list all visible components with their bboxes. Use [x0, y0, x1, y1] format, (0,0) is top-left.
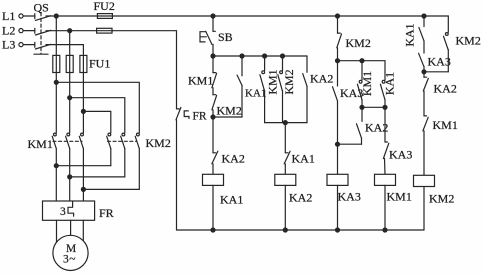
svg-text:KA1: KA1: [403, 23, 417, 46]
KM1 linkage dashes: [53, 140, 82, 142]
terminal L2: [19, 29, 23, 33]
contact KM1 (NO aux in KA3 branch): [357, 61, 362, 108]
label KA2 (NO to node B): [365, 121, 388, 135]
svg-text:KA2: KA2: [289, 191, 312, 205]
wire FR to motor 2: [70, 220, 72, 235]
svg-text:KA1: KA1: [382, 72, 396, 95]
svg-text:KM1: KM1: [360, 71, 374, 96]
junction phase1 tap: [54, 80, 58, 84]
contact KA1 (NO, bypass): [237, 56, 242, 117]
wire coil KA2 to bottom rail: [284, 185, 286, 230]
overload contact FR (NC) on left rail: [176, 107, 189, 119]
junction motor V: [68, 175, 72, 179]
svg-text:FU2: FU2: [94, 0, 115, 13]
wire L2 net to control left rail: [112, 31, 176, 109]
contact KA1 (NC) before KA2 coil: [284, 123, 290, 164]
node L3 label: [2, 38, 15, 52]
contact KA2 (NO, to node B): [338, 107, 363, 144]
wire tap phase2 to KM2 contact 2: [70, 98, 125, 133]
wire parallel branch bottom (y119.5): [265, 122, 307, 124]
fuse FU2 (L2, control supply): [97, 28, 113, 33]
svg-text:KM1: KM1: [188, 74, 213, 88]
label KM2 (coil): [429, 192, 454, 206]
contactor KM2 main contact 2: [121, 133, 125, 149]
wire to coil KM1: [384, 159, 387, 175]
wire KM1 NC to coil KM2: [423, 131, 425, 175]
wire bottom control rail: [177, 229, 425, 231]
contactor KM1 main contact 3: [79, 133, 83, 149]
label KA1 (NO bypass): [245, 88, 266, 100]
wire KM2 out 1: [110, 149, 112, 166]
svg-text:L3: L3: [2, 38, 15, 52]
contact KA1 (NO aux in KA3 branch): [380, 61, 385, 108]
disconnect switch QS pole 1: [23, 14, 51, 21]
label QS: [34, 1, 49, 15]
label KM1 (NC in KM2 branch): [433, 118, 458, 132]
wire phase3 vertical: [82, 45, 84, 133]
label KM1 (coil): [387, 190, 412, 204]
junction KA1 branch top: [240, 54, 244, 58]
disconnect switch QS pole 2: [23, 28, 51, 35]
label KA1 (NC at KA2 coil): [292, 152, 315, 166]
svg-text:KM2: KM2: [346, 36, 371, 50]
label KA3 (NO seal-in): [340, 86, 363, 100]
svg-text:KM2: KM2: [282, 69, 296, 94]
contact KM2 (NC) in KA3 branch: [337, 16, 342, 48]
wire y117 link: [213, 116, 242, 118]
contact KA2 (NC in KM2 branch): [423, 72, 428, 91]
label KM1 (vertical, KA3 branch): [360, 71, 374, 96]
svg-text:KM2: KM2: [456, 34, 481, 48]
contact KA3 (in KM2 branch): [419, 53, 424, 72]
contactor coil KM2: [414, 175, 435, 186]
svg-text:KM1: KM1: [265, 69, 279, 94]
label KA2 (NO seal-in): [310, 72, 333, 86]
junction phase2 tap: [68, 96, 72, 100]
junction KM1-aux branch top: [360, 59, 364, 63]
wire KM2 to node: [212, 110, 214, 117]
svg-text:SB: SB: [218, 30, 233, 44]
wire KM1 to KM2 contact: [212, 88, 214, 95]
label KM2 (NC): [217, 104, 242, 118]
svg-text:KA1: KA1: [292, 152, 315, 166]
junction bottom rail KA2: [283, 228, 287, 232]
fuse FU1 phase1: [53, 55, 60, 72]
wire L1 to FU2: [46, 15, 97, 17]
wire tap phase3 to KM2 contact 1: [83, 111, 110, 132]
svg-text:KM1: KM1: [433, 118, 458, 132]
svg-text:KA2: KA2: [310, 72, 333, 86]
wire L3 horizontal: [46, 44, 83, 46]
push button SB (NC, stop): [200, 31, 215, 44]
wire to node A: [337, 48, 339, 61]
svg-text:L1: L1: [2, 9, 15, 23]
QS mechanical linkage (dashed): [34, 13, 48, 55]
junction top rail / KM2 branch: [422, 14, 426, 18]
wire FR to motor 1: [56, 220, 58, 242]
junction node A: [336, 59, 340, 63]
junction node B: [336, 142, 340, 146]
label KA3 (NC at KM1 coil): [389, 148, 412, 162]
junction below SB: [211, 54, 215, 58]
wire KM2 out 2: [124, 149, 126, 177]
label KM2 (NC in KA3 branch): [346, 36, 371, 50]
relay coil KA3: [327, 174, 348, 185]
svg-text:KA3: KA3: [338, 190, 361, 204]
contact KA1 (NO in KM2 branch): [419, 16, 424, 53]
wire junction W: [83, 188, 139, 190]
wire top control rail (L1 net): [112, 15, 448, 17]
wire KM2 out 3: [138, 149, 140, 190]
wire FR to motor 3: [82, 220, 84, 241]
svg-text:KM2: KM2: [146, 136, 171, 150]
relay coil KA2: [275, 174, 296, 185]
junction node below KM2 NC: [211, 115, 215, 119]
contact KA2 (NO, seal-in): [303, 56, 307, 123]
junction top rail / KA3 branch: [336, 14, 340, 18]
contactor KM1 main contact 2: [66, 133, 70, 149]
svg-text:KA1: KA1: [220, 193, 243, 207]
contact KA3 (NO, seal-in): [333, 61, 338, 145]
svg-text:KA3: KA3: [389, 148, 412, 162]
node L1 label: [2, 9, 15, 23]
svg-text:KM1: KM1: [28, 137, 53, 151]
svg-text:FR: FR: [193, 111, 207, 123]
contactor KM1 main contact 1: [52, 133, 56, 149]
wire coil KM1 to bottom rail: [384, 185, 386, 230]
label KA3 (coil): [338, 190, 361, 204]
svg-text:FU1: FU1: [89, 57, 110, 71]
junction bottom rail KA3: [336, 228, 340, 232]
contactor coil KM1: [375, 174, 396, 185]
junction top rail / SB branch: [211, 14, 215, 18]
label KA3 (KM2 branch): [428, 55, 451, 69]
fuse FU1 phase3: [80, 55, 87, 72]
wire left rail lower: [176, 120, 178, 230]
wire tap phase1 to KM2 contact 3: [56, 82, 139, 132]
junction at KA1-aux bottom: [383, 105, 387, 109]
contact KA2 (NC) before KA1 coil: [212, 117, 218, 164]
wire KM1 out phase1 down to FR: [55, 149, 57, 201]
junction at KM1-aux bottom: [360, 105, 364, 109]
wire phase1 vertical: [55, 16, 57, 133]
wire parallel branch top (y56): [213, 55, 307, 57]
contact KA3 (NC) before KM1 coil: [383, 107, 388, 158]
svg-text:KA2: KA2: [222, 152, 245, 166]
node L2 label: [2, 24, 15, 38]
svg-text:FR: FR: [99, 206, 114, 220]
wire y107.3 join: [362, 106, 385, 108]
label FU1: [89, 57, 110, 71]
junction KA2-coil branch: [283, 121, 287, 125]
svg-text:KM2: KM2: [429, 192, 454, 206]
wire KA2 to KM1 NC: [423, 91, 425, 116]
wire node A horizontal (y60.7): [338, 60, 386, 62]
label KM1 (vertical): [265, 69, 279, 94]
disconnect switch QS pole 3: [23, 42, 51, 49]
relay coil KA1: [203, 174, 224, 185]
junction bottom rail KA1: [211, 228, 215, 232]
junction motor W: [81, 187, 85, 191]
wire junction U: [56, 165, 111, 167]
svg-text:KA3: KA3: [428, 55, 451, 69]
contact KM2 (NO aux, seal-in): [278, 56, 283, 123]
junction KM1 branch top: [263, 54, 267, 58]
wire coil KA1 to bottom rail: [212, 185, 214, 230]
junction phase3 tap: [81, 109, 85, 113]
wire KM1 out phase3 down to FR: [82, 149, 84, 201]
junction KM2 branch top: [281, 54, 285, 58]
label SB: [218, 30, 233, 44]
junction below KA3/KM2 parallel: [422, 70, 426, 74]
wire SB to node: [212, 44, 214, 56]
label KA2 (NC in KM2 branch): [434, 82, 457, 96]
contact KM1 (NC interlock in KM2 branch): [423, 116, 428, 131]
label KM2 (main contacts): [146, 136, 171, 150]
svg-text:3: 3: [60, 206, 66, 218]
label KM1 (NC): [188, 74, 213, 88]
fuse FU1 phase2: [66, 55, 73, 72]
wire coil KM2 to bottom rail: [423, 187, 425, 231]
contact KM2 (NC interlock): [212, 95, 217, 110]
motor M 3~: [53, 235, 88, 270]
label KA2 (NC at KA1 coil): [222, 152, 245, 166]
wire rail to SB: [212, 16, 214, 31]
svg-text:KA2: KA2: [434, 82, 457, 96]
fuse FU2 (L1, control supply): [97, 14, 112, 19]
terminal L1: [19, 14, 23, 18]
contact KM2 (NO aux, seal-in): [424, 16, 448, 72]
label FU2: [94, 0, 115, 13]
label KA1 (vertical, KM2 branch): [403, 23, 417, 46]
wire KM1 out phase2 down to FR: [69, 149, 71, 202]
contact KM1 (NC interlock): [212, 56, 217, 88]
label KA1 (vertical, KA3 branch): [382, 72, 396, 95]
wire phase2 vertical: [69, 31, 71, 133]
thermal overload relay FR (heater box): [43, 201, 95, 220]
label FR (power): [99, 206, 114, 220]
svg-text:KA1: KA1: [245, 88, 266, 100]
label FR (control): [193, 111, 207, 123]
junction motor U: [54, 164, 58, 168]
svg-text:3~: 3~: [63, 254, 75, 266]
label KA2 (coil): [289, 191, 312, 205]
contactor KM2 main contact 3: [135, 133, 139, 149]
contact KM1 (NO aux, seal-in): [260, 56, 265, 123]
label KM1 (main contacts): [28, 137, 53, 151]
junction on L1 at x56: [54, 14, 58, 18]
wire coil KA3 to bottom rail: [337, 185, 339, 230]
label KM2 (vertical): [282, 69, 296, 94]
wire junction V: [70, 176, 125, 178]
wire to coil KA2: [284, 164, 286, 175]
wire L2 to FU2: [46, 30, 97, 32]
contactor KM2 main contact 1: [107, 133, 111, 149]
svg-text:L2: L2: [2, 24, 15, 38]
terminal L3: [19, 43, 23, 47]
wire node B to coil KA3: [337, 144, 339, 174]
svg-text:KM2: KM2: [217, 104, 242, 118]
label KM2 (NO seal-in): [456, 34, 481, 48]
label KA1 (coil): [220, 193, 243, 207]
junction on L2 at x70: [68, 29, 72, 33]
svg-text:KM1: KM1: [387, 190, 412, 204]
junction bottom rail KM1: [383, 228, 387, 232]
KM2 linkage dashes: [108, 140, 137, 142]
wire KA2 to coil KA1: [212, 164, 214, 175]
